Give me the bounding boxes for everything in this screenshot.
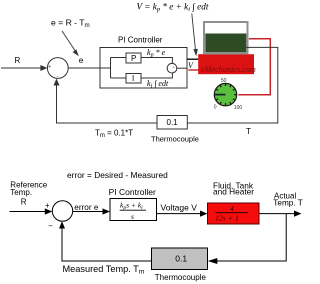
svg-text:Temp.: Temp. (10, 188, 32, 197)
wire I to small summer (141, 73, 172, 78)
heater red block (eMechanics watermark) (198, 54, 254, 74)
svg-text:eMechanics.com: eMechanics.com (201, 65, 256, 74)
svg-text:0.1: 0.1 (167, 118, 179, 127)
svg-text:s: s (131, 212, 134, 221)
svg-text:−: − (48, 222, 53, 231)
arrowhead up into summer (54, 79, 60, 86)
P block (126, 53, 141, 63)
red stub to heater block (188, 69, 198, 71)
svg-text:e: e (79, 55, 84, 65)
svg-text:Temp. T: Temp. T (273, 198, 302, 207)
svg-text:50: 50 (221, 78, 227, 84)
R input wire (bottom) (10, 211, 47, 213)
I block (126, 74, 141, 84)
tank (204, 22, 248, 54)
plant red block 4/(12s+1) (208, 203, 260, 224)
wire summer to PI (bottom) (73, 211, 105, 213)
wire split vertical (110, 58, 112, 79)
svg-text:R: R (21, 198, 27, 207)
svg-text:-: - (57, 74, 59, 80)
wire to P box (111, 57, 127, 59)
svg-text:T: T (246, 127, 251, 136)
svg-text:R: R (15, 56, 21, 65)
svg-text:+: + (45, 201, 50, 210)
thermocouple 0.1 box (top) (157, 116, 187, 130)
svg-text:P: P (131, 54, 136, 63)
svg-text:V = kp * e + ki ∫ edt: V = kp * e + ki ∫ edt (137, 2, 209, 14)
thermocouple block (bottom) (152, 248, 208, 270)
svg-text:PI Controller: PI Controller (118, 36, 163, 45)
svg-text:kp * e: kp * e (147, 48, 166, 59)
wire plant out (259, 213, 295, 215)
PI controller outer box (100, 48, 187, 89)
small summing circle (167, 63, 177, 73)
feedback tap down (217, 214, 286, 261)
arrowhead R into summer (40, 65, 47, 71)
summing junction (bottom) (52, 201, 72, 221)
wire R input (1, 67, 45, 69)
wire P to small summer (141, 58, 172, 64)
annotation arrow to e (62, 31, 79, 56)
svg-text:+: + (48, 65, 52, 71)
svg-text:Voltage V: Voltage V (161, 202, 198, 212)
needle (214, 94, 226, 96)
svg-text:Thermocouple: Thermocouple (151, 135, 199, 144)
svg-text:100: 100 (234, 105, 243, 111)
svg-text:PI Controller: PI Controller (109, 187, 156, 197)
annotation arrow to V node (192, 14, 198, 57)
feedback wire to summer (bottom) (62, 226, 152, 261)
svg-text:I: I (132, 74, 134, 83)
gauge (214, 78, 243, 111)
svg-text:0: 0 (214, 104, 217, 110)
svg-text:error = Desired - Measured: error = Desired - Measured (67, 170, 168, 180)
PI controller box (bottom) (110, 199, 157, 221)
wire small summer out (177, 67, 187, 69)
svg-text:e = R - Tm: e = R - Tm (51, 18, 90, 30)
svg-text:Measured Temp. Tm: Measured Temp. Tm (63, 264, 145, 276)
svg-text:Thermocouple: Thermocouple (155, 273, 207, 282)
wire summer to PI box (68, 67, 110, 69)
summing junction (top) (47, 58, 68, 79)
red wire tank to gauge (238, 39, 270, 95)
wire PI to plant (157, 213, 202, 215)
feedback wire to summer (top) (57, 82, 158, 123)
svg-text:error e: error e (74, 203, 99, 212)
svg-text:12s + 1: 12s + 1 (215, 213, 239, 222)
svg-text:ki ∫ edt: ki ∫ edt (147, 79, 169, 90)
svg-text:and Heater: and Heater (213, 187, 254, 197)
svg-text:0.1: 0.1 (175, 254, 187, 264)
wire to I box (111, 77, 127, 79)
svg-text:4: 4 (230, 204, 234, 213)
black stub to heater block (187, 58, 199, 60)
black wire tank to T and thermocouple (187, 47, 277, 123)
